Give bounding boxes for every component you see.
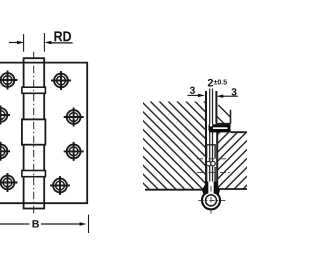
bearing ring 1 — [22, 87, 46, 93]
frame block left wall — [216, 124, 218, 189]
pin neck (teardrop merge) — [202, 182, 220, 197]
frame block hatching — [218, 132, 247, 189]
section centerline upper — [197, 158, 232, 160]
frame upper box hatching — [217, 105, 231, 124]
screw hole H8 — [50, 176, 70, 195]
knuckle: plate top line across — [24, 62, 45, 64]
dimension B: line right of label — [41, 223, 81, 225]
door block hatching — [143, 102, 205, 190]
middle knuckle (wide) — [22, 119, 46, 144]
section centerline lower — [197, 172, 232, 174]
bearing collar upper — [207, 145, 216, 159]
screw hole H7 — [0, 173, 18, 192]
dimension B: line left of label — [0, 223, 30, 225]
screw hole H4 — [64, 108, 84, 127]
dimension RD: right arrowhead — [44, 41, 51, 44]
label RD — [54, 31, 71, 41]
frame block top edge — [231, 131, 248, 133]
door block bottom edge — [145, 189, 206, 191]
dimension 3 right: tail — [223, 95, 238, 97]
screw hole H5 — [0, 142, 10, 161]
screw hole H1 — [0, 71, 18, 90]
dimension 3 right: arrowhead — [216, 95, 223, 98]
dimension RD: left arrow line — [9, 42, 18, 44]
bearing ball left — [206, 161, 211, 166]
dimension RD: right extension line — [43, 33, 45, 52]
frame block bottom edge — [217, 188, 247, 190]
knuckle section slit — [213, 127, 228, 129]
pin eye inner circle — [206, 195, 217, 206]
pin centerline — [33, 52, 35, 214]
pin eye outer circle — [202, 191, 220, 209]
screw hole H2 — [51, 71, 71, 90]
label B — [33, 220, 39, 227]
dimension B: arrowhead — [80, 222, 87, 225]
hinge pin right side — [212, 89, 214, 183]
dimension 3 left: arrowhead — [198, 94, 205, 97]
frame upper box bottom edge — [216, 123, 230, 125]
dimension RD: left arrowhead — [17, 41, 24, 44]
hinge pin left side — [209, 89, 211, 183]
dimension RD: left extension line — [23, 34, 25, 52]
screw hole H3 — [0, 106, 10, 125]
dimension B: extension line — [88, 215, 90, 233]
pin shaft slot — [208, 182, 213, 196]
pin eye vertical centerline — [210, 186, 212, 215]
frame upper box right edge — [230, 110, 232, 124]
screw hole H6 — [64, 142, 84, 161]
dimension RD: leader underline — [48, 42, 73, 44]
bearing ball right — [211, 161, 216, 166]
knuckle section (black bowl) — [209, 124, 231, 132]
label 3 left — [190, 87, 195, 94]
pin eye horizontal centerline — [198, 199, 225, 201]
frame upper box left wall / extension line — [215, 91, 217, 124]
label 3 right — [231, 88, 236, 95]
channel left wall / extension line — [205, 91, 207, 190]
knuckle barrel outline — [24, 58, 45, 208]
knuckle: plate bottom line across — [24, 202, 45, 204]
dimension 3 left: tail — [188, 94, 199, 96]
label 2 plus-minus 0.5 — [208, 79, 213, 87]
bearing ring 2 — [22, 171, 46, 177]
bearing collar lower — [207, 167, 216, 182]
hinge leaf plate outline — [0, 63, 87, 204]
